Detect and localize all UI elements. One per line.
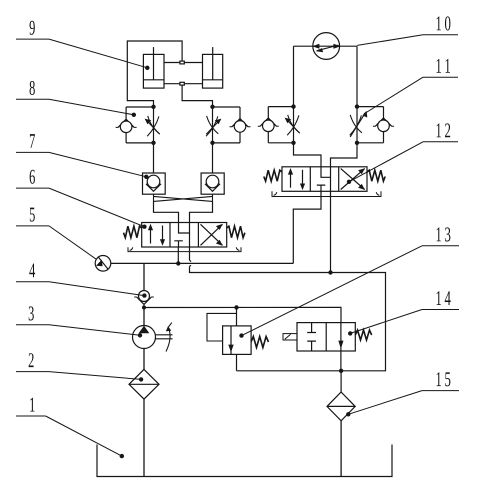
V1 right square crossed arrows — [201, 224, 223, 246]
wire relief inlet riser — [236, 307, 238, 326]
pilot operated check valves 7 — [143, 173, 225, 194]
V2 right square crossed arrows — [341, 168, 365, 190]
label 7 — [16, 134, 149, 179]
wire P riser to valve V2 — [293, 191, 321, 263]
node bottom junction — [339, 369, 343, 373]
node T junction — [328, 270, 332, 274]
pump P1 — [133, 323, 173, 352]
wire lower link with orifice — [164, 82, 203, 85]
check valve 4 — [134, 263, 154, 307]
wire P riser into V1 — [177, 247, 179, 263]
label 1 — [16, 398, 124, 459]
V2 springs — [264, 170, 385, 181]
wire pilot to V1 B port — [190, 201, 213, 222]
one-way throttle valve 8 right — [206, 107, 250, 143]
directional valve V2 (12) body — [282, 167, 367, 192]
cylinder 9 right — [203, 47, 223, 88]
label 2 — [16, 353, 143, 381]
hydraulic motor 10 — [294, 33, 358, 60]
label 5 — [16, 208, 96, 260]
label 4 — [16, 263, 147, 297]
wire filter to pump — [143, 349, 145, 370]
label 14 — [348, 291, 459, 335]
wire crossed pilot lines — [154, 194, 213, 201]
cylinder 9 left — [143, 47, 164, 88]
label 12 — [347, 123, 458, 184]
V1 springs — [123, 226, 244, 238]
wire P supply line — [144, 262, 293, 264]
wire T riser of V2 — [330, 191, 332, 272]
label 15 — [346, 372, 459, 416]
wire cylinder loop right — [182, 85, 212, 107]
wire T return from V1 with hop over P — [190, 247, 386, 371]
filter 2 — [129, 369, 159, 399]
label 11 — [364, 59, 458, 114]
wire gauge to P line — [111, 262, 144, 264]
one-way throttle valve 11 left — [258, 107, 300, 143]
directional valve V1 (6) body — [142, 223, 227, 248]
unloading valve 14 — [283, 323, 372, 371]
node relief branch — [234, 305, 238, 309]
wire pilot to V1 A port — [154, 201, 179, 222]
V1 centre square porting — [174, 223, 189, 248]
wire cylinder loop left — [127, 41, 182, 107]
V1 base feet — [128, 247, 241, 251]
wire V2 B port — [331, 143, 358, 167]
node P at valve V1 — [176, 261, 180, 265]
wire V2 A port — [294, 143, 322, 167]
label 6 — [16, 170, 147, 229]
filter 15 — [327, 371, 355, 477]
V1 left square arrows — [148, 224, 165, 246]
V2 centre square porting — [317, 167, 331, 192]
wire motor left riser — [293, 46, 295, 106]
wire pump to check valve — [143, 308, 145, 326]
relief valve 13 — [207, 313, 269, 370]
one-way throttle valve 11 right — [350, 107, 394, 143]
wire pilot check risers — [154, 143, 213, 173]
label 8 — [16, 81, 136, 117]
wire motor right riser — [356, 46, 358, 106]
pressure gauge 5 — [95, 255, 111, 271]
wire left main riser to filter — [143, 399, 145, 476]
one-way throttle valve 8 left — [116, 107, 160, 143]
V2 base feet — [272, 191, 381, 196]
tank (reservoir) — [97, 445, 392, 477]
wire pump protection branch — [144, 307, 341, 322]
nodes at throttle boxes — [151, 104, 359, 145]
V2 left square arrows — [288, 168, 305, 190]
label 9 — [16, 21, 150, 70]
wire upper link with orifice — [164, 61, 203, 64]
label 13 — [239, 227, 459, 337]
label 10 — [357, 16, 458, 45]
node pump branch — [142, 306, 146, 310]
label 3 — [16, 306, 142, 337]
